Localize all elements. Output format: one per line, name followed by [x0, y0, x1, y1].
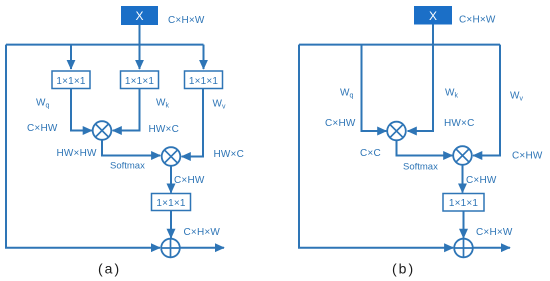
svg-text:C×HW: C×HW: [512, 151, 543, 162]
input box X (b): [414, 6, 452, 25]
wire: matmul2 to conv out (b): [462, 165, 464, 193]
svg-text:Softmax: Softmax: [403, 161, 438, 172]
wire: top bus (a): [6, 44, 204, 46]
wire: bus to conv Wv (a): [203, 45, 205, 69]
svg-text:Softmax: Softmax: [110, 161, 145, 172]
svg-text:1×1×1: 1×1×1: [156, 198, 186, 209]
svg-text:C×H×W: C×H×W: [459, 15, 496, 26]
conv box 1×1×1 out (a): [152, 194, 191, 211]
wire: X to matmul1 right input (b): [408, 24, 433, 131]
svg-text:C×HW: C×HW: [174, 175, 205, 186]
matmul1 operator (b): [387, 122, 406, 141]
svg-text:HW×C: HW×C: [214, 149, 245, 160]
svg-text:1×1×1: 1×1×1: [449, 198, 479, 209]
conv box 1×1×1 out (b): [443, 194, 484, 212]
svg-text:C×H×W: C×H×W: [184, 227, 221, 238]
matmul1 operator (a): [93, 121, 112, 140]
wire: conv out to add (a): [170, 211, 172, 238]
add operator (b): [454, 239, 473, 258]
svg-text:(a): (a): [98, 261, 121, 277]
wire: output arrow (b): [473, 247, 510, 249]
svg-text:HW×HW: HW×HW: [57, 148, 98, 159]
svg-text:C×H×W: C×H×W: [168, 15, 205, 26]
wire: skip connection (a): [6, 45, 160, 248]
wire: conv Wk to matmul1 (a): [113, 89, 140, 131]
svg-text:C×HW: C×HW: [325, 118, 356, 129]
conv box 1×1×1 Wq (a): [52, 71, 90, 89]
svg-text:HW×C: HW×C: [444, 118, 475, 129]
svg-text:1×1×1: 1×1×1: [125, 76, 155, 87]
svg-text:C×HW: C×HW: [27, 123, 58, 134]
wire: matmul1 to matmul2 (b): [397, 140, 453, 155]
wire: Wq branch to matmul1 (b): [362, 45, 387, 131]
wire: conv Wv to matmul2 (a): [182, 89, 203, 157]
wire: matmul1 to matmul2 (a): [102, 140, 160, 156]
svg-text:HW×C: HW×C: [149, 124, 180, 135]
wire: matmul2 to conv out (a): [170, 166, 172, 193]
svg-text:X: X: [429, 9, 437, 23]
wire: output arrow (a): [180, 247, 224, 249]
svg-text:(b): (b): [392, 261, 415, 277]
svg-text:X: X: [135, 9, 143, 23]
wire: conv Wq to matmul1 (a): [71, 89, 92, 131]
wire: top bus (b): [299, 44, 500, 46]
svg-text:C×H×W: C×H×W: [476, 227, 513, 238]
svg-text:1×1×1: 1×1×1: [189, 76, 219, 87]
svg-text:C×HW: C×HW: [466, 175, 497, 186]
wire: conv out to add (b): [463, 211, 465, 238]
add operator (a): [161, 239, 180, 258]
svg-text:1×1×1: 1×1×1: [56, 76, 86, 87]
matmul2 operator (a): [162, 147, 181, 166]
wire: X to top bus (a): [139, 25, 141, 45]
conv box 1×1×1 Wv (a): [185, 71, 223, 89]
matmul2 operator (b): [453, 146, 472, 165]
svg-text:C×C: C×C: [360, 148, 381, 159]
wire: Wv branch to matmul2 (b): [473, 45, 500, 156]
wire: skip connection (b): [299, 45, 453, 248]
wire: bus to conv Wq (a): [70, 45, 72, 69]
input box X (a): [121, 6, 158, 25]
wire: bus to conv Wk (a): [139, 45, 141, 69]
conv box 1×1×1 Wk (a): [121, 71, 159, 89]
